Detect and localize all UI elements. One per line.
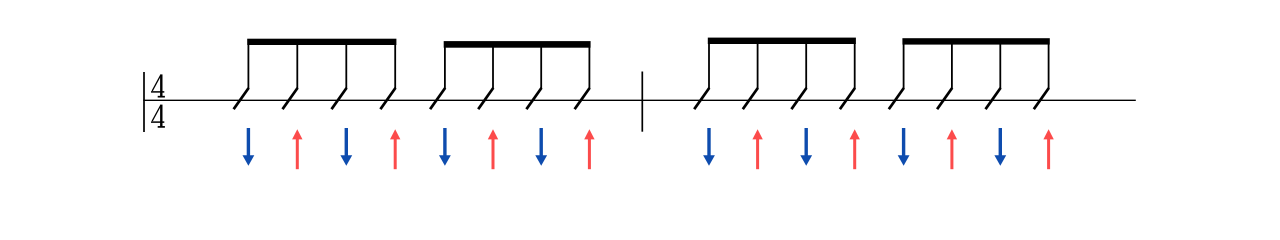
downstroke arrow 7 (blue, down) [535, 128, 547, 166]
note 14 stem [951, 44, 953, 89]
barline middle (between measure 1 and measure 2) [641, 72, 643, 132]
note 15 stem [999, 44, 1001, 89]
note 5 slash notehead [430, 88, 445, 109]
note 10 stem [757, 43, 759, 89]
note 2 stem [296, 44, 298, 89]
downstroke arrow 3 (blue, down) [340, 128, 352, 166]
downstroke arrow 11 (blue, down) [800, 128, 812, 166]
upstroke arrow 2 (red, up) [292, 129, 302, 169]
note 8 slash notehead [575, 88, 590, 109]
barline left (system start) [143, 72, 145, 132]
note 10 slash notehead [743, 88, 758, 109]
time signature numerator 4 [151, 74, 165, 96]
beam 3 (eighth-note beam) [708, 38, 856, 44]
note 6 slash notehead [478, 88, 493, 109]
note 15 slash notehead [986, 88, 1001, 109]
note 13 stem [903, 44, 905, 89]
note 9 stem [708, 43, 710, 89]
note 2 slash notehead [283, 88, 298, 109]
downstroke arrow 9 (blue, down) [703, 128, 715, 166]
time signature denominator 4 [151, 105, 165, 127]
downstroke arrow 1 (blue, down) [243, 128, 255, 166]
upstroke arrow 6 (red, up) [488, 129, 498, 169]
note 8 stem [588, 47, 590, 89]
note 7 slash notehead [526, 88, 541, 109]
upstroke arrow 12 (red, up) [850, 129, 860, 169]
upstroke arrow 10 (red, up) [752, 129, 762, 169]
note 14 slash notehead [937, 88, 952, 109]
upstroke arrow 16 (red, up) [1043, 129, 1053, 169]
note 5 stem [444, 47, 446, 89]
note 11 slash notehead [791, 88, 806, 109]
downstroke arrow 13 (blue, down) [898, 128, 910, 166]
note 16 stem [1048, 44, 1050, 89]
note 1 slash notehead [234, 88, 249, 109]
note 3 slash notehead [332, 88, 347, 109]
downstroke arrow 5 (blue, down) [439, 128, 451, 166]
upstroke arrow 14 (red, up) [947, 129, 957, 169]
note 4 stem [394, 44, 396, 89]
note 12 stem [854, 43, 856, 89]
staff line [143, 99, 1136, 101]
note 12 slash notehead [840, 88, 855, 109]
note 6 stem [492, 47, 494, 89]
upstroke arrow 4 (red, up) [390, 129, 400, 169]
note 16 slash notehead [1034, 88, 1049, 109]
upstroke arrow 8 (red, up) [584, 129, 594, 169]
beam 1 (eighth-note beam) [247, 39, 396, 45]
note 7 stem [540, 47, 542, 89]
downstroke arrow 15 (blue, down) [994, 128, 1006, 166]
note 9 slash notehead [694, 88, 709, 109]
note 13 slash notehead [889, 88, 904, 109]
note 1 stem [247, 44, 249, 89]
note 11 stem [805, 43, 807, 89]
beam 4 (eighth-note beam) [902, 38, 1049, 44]
note 4 slash notehead [380, 88, 395, 109]
note 3 stem [345, 44, 347, 89]
beam 2 (eighth-note beam) [444, 41, 591, 48]
